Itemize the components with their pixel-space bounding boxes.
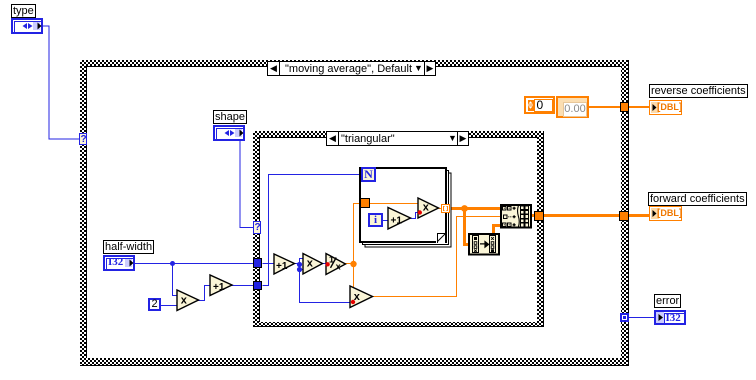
array wire reverse 1d array output to build array input 3 xyxy=(494,226,502,234)
wire +1 to inner tunnel 2 xyxy=(232,285,253,287)
label shape xyxy=(213,110,247,124)
inner case structure border (checker) xyxy=(253,131,544,327)
increment +1 (outside) xyxy=(210,275,232,296)
orange junction after 1/x xyxy=(350,261,356,267)
inner case selector terminal ? xyxy=(253,221,261,234)
wire i terminal to loop +1 xyxy=(383,220,388,222)
enum control type xyxy=(11,18,43,34)
label error xyxy=(654,294,681,308)
coercion dot on loop multiply input xyxy=(418,210,422,214)
wire shape control to inner case selector xyxy=(240,140,254,228)
array wire build array to inner tunnel xyxy=(532,214,534,217)
wire 0.00 constant to reverse tunnel xyxy=(589,106,620,108)
loop input tunnel (orange) xyxy=(360,198,370,208)
array wire inner tunnel to outer tunnel xyxy=(544,214,619,217)
wire 1/x output to orange junction xyxy=(346,263,354,265)
label type xyxy=(11,4,36,18)
inner case output tunnel (orange) xyxy=(534,211,544,221)
junction dot on half-width wire xyxy=(170,261,175,266)
build array node xyxy=(501,205,531,228)
indicator error I32 xyxy=(654,310,686,325)
orange junction on loop output array wire xyxy=(461,205,468,212)
inner tunnel 2 (2h+1) xyxy=(253,281,262,290)
reverse 1d array node xyxy=(469,234,499,255)
outer case output tunnel reverse (orange) xyxy=(620,102,629,112)
N count terminal xyxy=(361,167,376,182)
inner tunnel 1 (half-width) xyxy=(253,258,262,268)
wire orange junction down to lower multiply xyxy=(353,264,355,291)
multiply x (inner chain) xyxy=(303,254,323,275)
outer case structure inner area xyxy=(86,66,621,358)
array wire junction down to reverse 1d array xyxy=(465,209,469,245)
wire orange junction up to loop tunnel xyxy=(354,204,361,264)
reciprocal 1/x xyxy=(326,254,346,275)
enum control shape xyxy=(213,125,245,141)
array wire indexing tunnel to build array input 1 xyxy=(450,207,501,210)
junction dots after inner +1 xyxy=(297,262,302,267)
wire constant 2 to multiply xyxy=(161,305,177,307)
wire x to 1/x xyxy=(323,263,327,265)
indicator reverse coefficients DBL array xyxy=(649,100,682,115)
wire reverse tunnel to reverse coefficients indicator xyxy=(629,106,650,108)
increment +1 (in loop) xyxy=(388,208,411,230)
for loop main frame xyxy=(360,168,446,242)
svg-text:x: x xyxy=(423,202,430,214)
wire half-width to inner tunnel xyxy=(135,263,253,265)
coercion dot on lower multiply input xyxy=(351,300,355,304)
wire branch to multiply x2 xyxy=(173,264,178,296)
wire lower multiply output to build array input 2 xyxy=(373,217,502,297)
wire error tunnel to error indicator xyxy=(628,317,655,319)
wires inside loop redrawn over frame fill xyxy=(370,204,441,221)
wire inner +1 output to junction and x inputs xyxy=(295,263,300,265)
wire loop tunnel to loop multiply xyxy=(370,203,419,205)
svg-text:x: x xyxy=(336,262,341,272)
svg-text:+1: +1 xyxy=(276,261,288,272)
wire junction down to lower multiply xyxy=(300,302,353,304)
wire tunnel1 to inner +1 xyxy=(263,263,274,265)
constant 2 xyxy=(148,298,161,311)
outer case structure border (checker) xyxy=(80,60,629,366)
outer case selector terminal ? xyxy=(79,133,87,145)
indicator forward coefficients DBL array xyxy=(649,206,682,221)
i iteration terminal xyxy=(368,213,383,227)
coercion dot on 1/x input xyxy=(325,262,329,266)
wire tunnel2 to N count terminal xyxy=(263,175,361,286)
label half-width xyxy=(103,240,154,254)
multiply x (lower) xyxy=(350,286,373,308)
label reverse coefficients xyxy=(649,84,748,98)
array wire outer tunnel to forward coefficients indicator xyxy=(629,214,650,217)
svg-text:x: x xyxy=(307,258,314,270)
svg-text:+1: +1 xyxy=(391,216,403,227)
for loop shadow frames xyxy=(365,173,451,247)
wire loop +1 to loop multiply xyxy=(411,213,420,219)
increment +1 (inner, from tunnel1) xyxy=(274,254,295,274)
numeric control half-width I32 xyxy=(103,255,135,271)
wire type control to outer case selector xyxy=(43,26,80,139)
svg-text:x: x xyxy=(181,295,188,307)
numeric constant 0 xyxy=(524,96,555,114)
multiply x (in loop) xyxy=(418,198,439,218)
for loop corner fold xyxy=(436,232,445,244)
outer case output tunnel error (blue) xyxy=(620,313,629,322)
label forward coefficients xyxy=(648,192,747,206)
numeric constant 0.00 (dimmed) xyxy=(556,96,589,118)
wire loop multiply to indexing tunnel xyxy=(439,208,442,210)
inner case structure inner area xyxy=(259,137,537,322)
selector label: outer case xyxy=(267,61,436,76)
selector label: inner case xyxy=(326,131,469,146)
loop auto-index output tunnel [] xyxy=(441,204,450,213)
outer case output tunnel forward (orange) xyxy=(619,211,629,221)
multiply triangle x2 (half-width * 2) xyxy=(177,290,199,311)
svg-text:+1: +1 xyxy=(213,282,225,293)
wire multiply to +1 xyxy=(199,286,211,301)
